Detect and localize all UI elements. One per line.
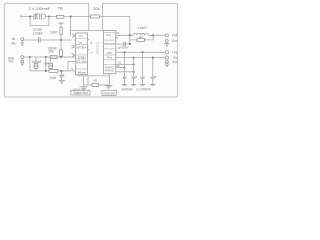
connector GND with ground — [21, 60, 24, 63]
svg-text:0R: 0R — [93, 78, 97, 82]
svg-text:10mF: 10mF — [49, 76, 57, 80]
node dot at x=61.4 on lower rail — [61, 70, 63, 72]
IC-A pin texts — [76, 34, 86, 74]
ground under In connector — [20, 41, 24, 46]
IC-B pin texts — [104, 33, 115, 72]
resistor R8 on supply rail — [50, 56, 57, 59]
wire bus y=30.5 to IC-B top — [71, 30, 104, 32]
svg-text:In: In — [12, 37, 16, 41]
wire ground bridge y=75.9 — [77, 75, 110, 77]
inductor L1 — [133, 33, 148, 35]
svg-text:20k: 20k — [93, 7, 100, 11]
connector -Vs — [165, 56, 168, 59]
border frame (left, bottom, right, top-left, top-right segments) — [4, 4, 177, 98]
node dots on output wire — [129, 34, 131, 36]
connector Out — [165, 34, 168, 37]
IC-B dividers — [103, 32, 115, 64]
resistor R6 on lower rail — [49, 70, 58, 73]
svg-text:2 x 200mkF: 2 x 200mkF — [29, 7, 51, 11]
ground digital — [83, 76, 85, 87]
svg-text:GND: GND — [8, 60, 14, 64]
wire rail +Vs y=52.3 — [116, 51, 165, 53]
wire rail -Vs y=57.6 — [116, 57, 166, 59]
capacitor C10 — [150, 76, 156, 86]
IC-A left wire y=61.4 — [68, 60, 76, 62]
capacitor C1 C2 (2 x 200mkF parallel pair) — [34, 14, 46, 20]
capacitor C11 plate above R3 — [58, 23, 63, 28]
svg-text:DAC: DAC — [11, 42, 17, 46]
svg-text:1x470mF: 1x470mF — [121, 88, 133, 92]
resistor R4 20k vertical — [34, 63, 38, 68]
node junction dot after R1 — [70, 16, 72, 18]
connector MAIN supply — [21, 56, 24, 59]
box Power Gnd — [102, 90, 116, 95]
connector Gnd out — [165, 39, 168, 42]
resistor R3 130K vertical — [60, 28, 63, 35]
svg-text:Mute: Mute — [78, 71, 87, 75]
capacitor C6 10mkF to ground — [59, 72, 65, 83]
op-amp U1 IC-A body — [76, 33, 88, 75]
capacitor C5 vertical polarized — [44, 57, 49, 71]
svg-text:Digital Gnd: Digital Gnd — [73, 91, 88, 95]
svg-text:10k: 10k — [48, 64, 53, 68]
wire top feedback rail y=16.4 — [21, 15, 130, 17]
IC-B right pin numbers — [116, 31, 121, 68]
wire B y=85 — [84, 84, 92, 86]
ground under Gnd out — [164, 42, 169, 46]
wire vertical x=88 — [87, 76, 89, 85]
svg-text:S/TB+: S/TB+ — [76, 46, 86, 50]
svg-text:TDA7294: TDA7294 — [95, 42, 99, 55]
capacitor C7 — [122, 77, 127, 86]
wire supply rail y=57 — [24, 56, 76, 58]
wire left drop x=29.9 — [29, 57, 31, 71]
wire after coil — [148, 34, 165, 36]
svg-text:Power Gnd: Power Gnd — [103, 91, 115, 95]
wire end tick — [20, 15, 22, 18]
node dot snubber — [129, 43, 131, 45]
wires IC-B lower right pins — [116, 63, 134, 65]
capacitor C3 input 1.0mkF — [39, 37, 41, 43]
resistor R2 20k — [91, 15, 100, 18]
wire drop from main to IC-A pin1 — [70, 17, 72, 36]
svg-text:1.0mkF: 1.0mkF — [33, 32, 43, 36]
node B junction dot right — [48, 16, 50, 18]
svg-text:-PVs: -PVs — [106, 56, 112, 60]
node junction dot on input wire — [60, 39, 62, 41]
IC-A right stubs — [88, 38, 90, 40]
connector Gnd supply — [166, 60, 169, 63]
wire snubber y=44 — [116, 43, 124, 45]
wire output y=35.3 — [116, 34, 133, 36]
svg-text:2 x 2000mF: 2 x 2000mF — [136, 88, 151, 92]
svg-text:24: 24 — [116, 31, 120, 35]
wire down to C4 — [60, 40, 62, 50]
wire U-loop under caps — [30, 16, 49, 25]
resistor R5 10k vertical — [49, 63, 53, 68]
connector +Vs — [165, 51, 168, 54]
resistor R1 78R — [57, 15, 64, 18]
resistor R9 0R bridge — [92, 84, 99, 87]
wire verticals from top frame — [88, 4, 90, 31]
wire IC-B bottom to power gnd — [109, 74, 111, 86]
ground under Gnd supply — [165, 63, 170, 67]
svg-text:Gnd: Gnd — [172, 39, 178, 43]
node dots on rails — [124, 51, 126, 53]
wire feedback drop to output — [129, 16, 131, 35]
svg-text:ST_Out: ST_Out — [76, 59, 86, 63]
capacitor C12 4700mF snubber — [124, 42, 126, 46]
svg-text:Gnd: Gnd — [172, 60, 178, 64]
capacitor C8 — [131, 76, 137, 86]
connector In — [21, 38, 24, 41]
amplifier U2 IC-B body — [103, 31, 115, 74]
svg-text:BS/AGND: BS/AGND — [104, 42, 115, 46]
IC-A left pin arrows — [72, 34, 75, 57]
svg-text:20k: 20k — [49, 49, 54, 53]
wire lower rail y=70.9 — [30, 70, 49, 72]
box Digital Gnd — [71, 90, 90, 95]
wire hook left of digital ground — [73, 88, 81, 90]
IC-A dividers — [76, 39, 88, 69]
svg-text:1mkH: 1mkH — [138, 26, 147, 30]
capacitor C4 100mkF vertical box — [60, 50, 63, 56]
node dots on supply rail — [29, 56, 31, 58]
svg-text:-PWVS: -PWVS — [104, 68, 113, 72]
wire input y=40 — [24, 39, 39, 41]
resistor R7 parallel loop — [130, 35, 153, 44]
svg-text:Out: Out — [106, 33, 111, 37]
svg-text:78: 78 — [57, 6, 63, 10]
capacitor bank verticals — [125, 52, 153, 77]
svg-text:+PVs: +PVs — [106, 51, 112, 55]
capacitor C9 — [140, 77, 145, 86]
svg-text:+Vs: +Vs — [172, 51, 178, 55]
svg-text:Out: Out — [172, 34, 177, 38]
svg-text:Ou: Ou — [79, 34, 83, 38]
ground power — [105, 85, 113, 88]
svg-text:20k: 20k — [34, 64, 39, 68]
svg-text:4700mF: 4700mF — [120, 45, 129, 49]
svg-text:R2: R2 — [139, 35, 143, 39]
svg-text:Un: Un — [78, 40, 82, 44]
node A junction dot left — [29, 16, 31, 18]
wire R3 bottom to input wire — [60, 35, 62, 40]
svg-text:130K: 130K — [50, 31, 58, 35]
